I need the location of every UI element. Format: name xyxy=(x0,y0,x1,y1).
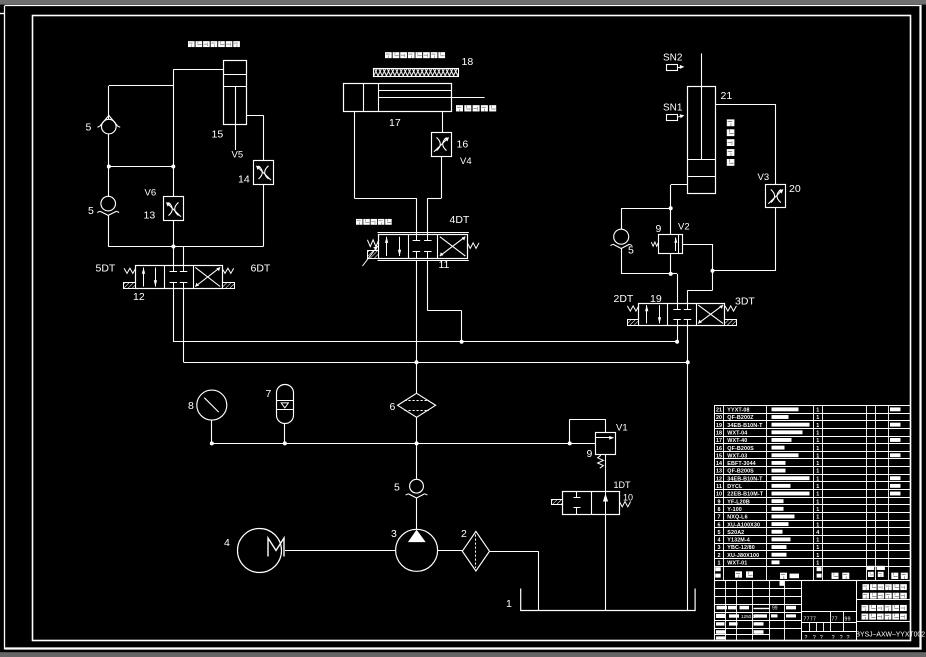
svg-text:1: 1 xyxy=(506,598,512,610)
spring right valve12 xyxy=(222,268,234,273)
pilot valve 9 V2 xyxy=(659,234,683,254)
svg-text:16: 16 xyxy=(457,139,469,151)
wire valve12 top ports xyxy=(174,247,184,266)
parts row 4 Y132M-4 xyxy=(718,537,820,543)
svg-text:YBC-12/80: YBC-12/80 xyxy=(727,545,755,551)
svg-text:?: ? xyxy=(832,635,835,641)
svg-text:3: 3 xyxy=(391,528,397,540)
wire valve12 to bus B xyxy=(183,289,185,363)
svg-text:WXT-04: WXT-04 xyxy=(727,430,747,436)
svg-text:11: 11 xyxy=(716,484,722,490)
spring left valve11 xyxy=(367,240,378,247)
svg-text:4: 4 xyxy=(816,530,819,536)
wire cylinder15 right port to valve14 xyxy=(247,115,264,160)
svg-text:19: 19 xyxy=(650,293,662,305)
svg-text:10: 10 xyxy=(716,492,722,498)
cylinder 17 horizontal xyxy=(344,84,485,112)
svg-text:1: 1 xyxy=(816,522,819,528)
check valve 5 (center) xyxy=(406,479,428,498)
svg-text:QF-B200S: QF-B200S xyxy=(727,469,754,475)
svg-text:SN1: SN1 xyxy=(663,103,683,114)
parts row 6 XU-A100X30 xyxy=(718,522,820,528)
svg-text:14: 14 xyxy=(238,174,250,186)
svg-text:5: 5 xyxy=(628,245,634,257)
cylinder 21 vertical lift xyxy=(688,53,716,193)
solenoid 2DT xyxy=(628,320,639,326)
svg-text:NXQ-L6: NXQ-L6 xyxy=(727,515,747,521)
spring right valve11 xyxy=(467,243,479,249)
svg-text:99: 99 xyxy=(772,606,778,612)
spring left valve19 xyxy=(627,306,638,311)
svg-text:1: 1 xyxy=(816,553,819,559)
solenoid 6DT xyxy=(223,283,235,289)
svg-text:19: 19 xyxy=(716,423,722,429)
parts row 15 WXT-03 xyxy=(716,453,901,459)
wire valve19 to bus A xyxy=(677,325,679,341)
svg-text:SN2: SN2 xyxy=(663,53,683,64)
label gripper cylinder (Chinese) xyxy=(188,41,240,47)
wire cross link xyxy=(109,166,174,168)
svg-text:1: 1 xyxy=(816,476,819,482)
svg-text:12: 12 xyxy=(133,291,145,303)
junction xyxy=(460,340,464,344)
svg-text:4: 4 xyxy=(224,537,230,549)
shaft motor-pump xyxy=(285,550,396,552)
parts row 18 WXT-04 xyxy=(716,430,819,436)
relief valve V1 pilot loop xyxy=(570,419,606,443)
svg-text:13: 13 xyxy=(144,210,156,222)
parts table header row xyxy=(715,566,908,579)
svg-text:V3: V3 xyxy=(758,172,770,183)
svg-text:1: 1 xyxy=(816,430,819,436)
relief valve V1 body 9 xyxy=(595,433,615,455)
spring left valve12 xyxy=(124,268,136,273)
wire filter to tank xyxy=(490,551,539,610)
parts row 9 YF-L20B xyxy=(718,499,820,505)
svg-text:1: 1 xyxy=(816,492,819,498)
directional valve 12 body xyxy=(136,265,223,288)
suction filter 2 xyxy=(462,531,489,571)
svg-text:17: 17 xyxy=(716,438,722,444)
svg-text:8: 8 xyxy=(718,507,721,513)
svg-text:2: 2 xyxy=(718,553,721,559)
svg-text:18: 18 xyxy=(462,56,474,68)
svg-text:?: ? xyxy=(847,635,850,641)
svg-text:7777: 7777 xyxy=(804,616,817,622)
svg-text:V5: V5 xyxy=(232,150,244,161)
pump 3 xyxy=(396,529,438,571)
flow control valve 20 V3 xyxy=(766,185,786,208)
bus line A xyxy=(173,341,677,343)
servo valve 11 body xyxy=(378,233,469,261)
relief valve V1 bus link xyxy=(568,441,572,445)
svg-text:DYCL: DYCL xyxy=(727,484,743,490)
svg-text:1: 1 xyxy=(816,446,819,452)
junction xyxy=(711,269,715,273)
wire accumulator to bus xyxy=(284,424,286,444)
svg-text:?: ? xyxy=(804,635,807,641)
svg-text:22EB-B10M-T: 22EB-B10M-T xyxy=(727,492,763,498)
svg-text:34EB-B10N-T: 34EB-B10N-T xyxy=(727,476,763,482)
svg-text:YF-L20B: YF-L20B xyxy=(727,499,750,505)
svg-text:10: 10 xyxy=(623,493,633,503)
wire branch to check valve 5 right xyxy=(621,208,671,229)
svg-text:YYXT-08: YYXT-08 xyxy=(727,408,749,414)
electric motor 4 xyxy=(238,529,285,573)
wire cyl17 right port to valve16 xyxy=(442,111,444,132)
junction xyxy=(686,360,690,364)
svg-text:34EB-B10N-T: 34EB-B10N-T xyxy=(727,423,763,429)
svg-text:V4: V4 xyxy=(460,156,472,167)
svg-text:99: 99 xyxy=(845,616,851,622)
pressure gauge 8 xyxy=(197,390,227,420)
svg-text:5: 5 xyxy=(88,205,94,217)
svg-text:1: 1 xyxy=(718,561,721,567)
parts row 2 XU-J80X100 xyxy=(718,553,820,559)
wire junction to valve20 line xyxy=(713,270,776,272)
wire return to tank right xyxy=(687,362,689,610)
wire valve13 bottom xyxy=(173,221,175,247)
parts row 13 QF-B200S xyxy=(716,469,819,475)
svg-text:6: 6 xyxy=(390,401,396,413)
title block drawing name (Chinese) xyxy=(862,605,907,620)
svg-text:6DT: 6DT xyxy=(251,263,271,275)
spring below V1 xyxy=(598,455,604,468)
svg-text:1: 1 xyxy=(816,538,819,544)
parts row 12 34EB-B10N-T xyxy=(716,476,901,482)
svg-text:WXT-03: WXT-03 xyxy=(727,453,747,459)
svg-text:QF-B200Z: QF-B200Z xyxy=(727,415,754,421)
junction xyxy=(415,441,419,445)
wire junction to valve19 left port xyxy=(671,274,678,304)
parts row 14 EBFT-3044 xyxy=(716,461,819,467)
wire valve20 bottom xyxy=(775,208,777,271)
svg-text:16: 16 xyxy=(716,446,722,452)
wire cyl17 left port xyxy=(354,111,416,235)
wire cyl21 bottom port xyxy=(671,185,688,235)
flow control valve 13 V6 xyxy=(164,197,184,221)
wire check valve branch top xyxy=(109,86,174,120)
parts row 1 WXT-01 xyxy=(718,560,820,566)
svg-text:20: 20 xyxy=(716,415,722,421)
accumulator 7 xyxy=(277,385,294,424)
title block middle marks xyxy=(804,616,851,641)
svg-text:?: ? xyxy=(840,635,843,641)
junction xyxy=(171,245,175,249)
wire check valve to pump xyxy=(416,498,418,530)
svg-text:Y-100: Y-100 xyxy=(727,507,742,513)
svg-text:5: 5 xyxy=(86,122,92,134)
junction xyxy=(210,441,214,445)
svg-text:9: 9 xyxy=(587,448,593,460)
svg-text:2DT: 2DT xyxy=(614,293,634,305)
sensor SN1 symbol xyxy=(667,114,685,120)
svg-text:13: 13 xyxy=(716,469,722,475)
svg-text:4DT: 4DT xyxy=(450,214,470,226)
flow control valve 16 V4 xyxy=(432,133,452,157)
parts row 3 YBC-12/80 xyxy=(718,545,820,551)
svg-text:1: 1 xyxy=(816,438,819,444)
wire valve10 to tank xyxy=(605,515,607,610)
wire valve9 bottom xyxy=(670,254,672,274)
svg-text:14: 14 xyxy=(716,461,722,467)
svg-text:1: 1 xyxy=(816,423,819,429)
wire valve19 to bus B and tank xyxy=(687,325,689,362)
solenoid 3DT xyxy=(725,320,737,326)
title block school name (Chinese) xyxy=(863,584,907,599)
wire valve11 right port to bus A xyxy=(428,260,462,342)
wire bus to check valve xyxy=(416,443,418,479)
svg-text:1: 1 xyxy=(816,469,819,475)
wire junction to valve19 right port xyxy=(688,271,713,303)
parts row 7 NXQ-L6 xyxy=(718,515,820,521)
wire valve11 left port to bus B xyxy=(416,260,418,362)
parts row 8 Y-100 xyxy=(718,507,820,513)
svg-text:1: 1 xyxy=(816,408,819,414)
parts row 16 QF-B200S xyxy=(716,446,819,452)
bus line B xyxy=(184,362,688,364)
parts list table xyxy=(715,405,911,580)
wire valve12 to bus A xyxy=(173,289,175,342)
junction xyxy=(669,272,673,276)
svg-text:1: 1 xyxy=(816,461,819,467)
wire cyl21 top port to valve20 xyxy=(715,105,776,185)
junction xyxy=(283,441,287,445)
svg-text:8: 8 xyxy=(188,400,194,412)
svg-text:21: 21 xyxy=(721,90,733,102)
sensor bar 18 crosshatched xyxy=(374,69,459,77)
junction xyxy=(669,206,673,210)
svg-text:WXT-40: WXT-40 xyxy=(727,438,747,444)
directional valve 19 body xyxy=(639,303,725,325)
wire gauge to bus xyxy=(211,420,213,443)
svg-text:V6: V6 xyxy=(145,188,157,199)
svg-text:9: 9 xyxy=(656,223,662,235)
wire check valve to junction xyxy=(621,248,671,274)
wire pump to filter xyxy=(438,550,463,552)
wire V1 to valve10 xyxy=(605,455,607,491)
wire valve14 bottom xyxy=(263,184,265,246)
wire valve9 right loop xyxy=(683,244,713,271)
solenoid 1DT hatched xyxy=(552,500,563,505)
title block signature marks xyxy=(716,581,796,640)
svg-text:2: 2 xyxy=(461,528,467,540)
svg-text:18: 18 xyxy=(716,430,722,436)
svg-text:1: 1 xyxy=(816,545,819,551)
svg-text:5: 5 xyxy=(718,530,721,536)
svg-text:?: ? xyxy=(820,635,823,641)
main riser line xyxy=(416,362,418,443)
spring left valve9 xyxy=(651,242,658,246)
check valve 5 (second, left) xyxy=(97,196,119,215)
svg-text:V2: V2 xyxy=(678,222,690,233)
svg-text:5DT: 5DT xyxy=(96,263,116,275)
check valve 5 (top left) xyxy=(97,115,120,133)
check valve 5 (right) xyxy=(610,229,632,248)
parts row 5 S20A2 xyxy=(718,530,820,536)
junction xyxy=(107,165,111,169)
parts row 21 YYXT-08 xyxy=(716,407,901,413)
parts row 20 QF-B200Z xyxy=(716,415,819,421)
svg-text:1: 1 xyxy=(816,453,819,459)
wire valve16 to servo valve xyxy=(428,156,442,235)
unloading valve 10 body xyxy=(563,491,620,515)
junction xyxy=(675,340,679,344)
label horizontal cylinder (Chinese) xyxy=(456,105,496,111)
label vertical lift cylinder (Chinese vertical) xyxy=(727,119,735,165)
svg-text:5: 5 xyxy=(394,482,400,494)
svg-text:1DT: 1DT xyxy=(614,480,632,490)
svg-text:?: ? xyxy=(813,635,816,641)
svg-text:7: 7 xyxy=(718,515,721,521)
svg-text:77: 77 xyxy=(832,616,838,622)
spring right valve10 xyxy=(619,502,630,507)
svg-text:4: 4 xyxy=(718,538,721,544)
parts row 17 WXT-40 xyxy=(716,438,901,444)
svg-text:1250.1: 1250.1 xyxy=(741,614,755,619)
svg-text:7: 7 xyxy=(266,388,272,400)
parts row 11 DYCL xyxy=(716,484,900,490)
pressure bus line xyxy=(212,443,596,445)
svg-text:9: 9 xyxy=(718,499,721,505)
svg-text:1: 1 xyxy=(816,507,819,513)
label displacement sensor (Chinese) xyxy=(385,52,445,58)
parts row 10 22EB-B10M-T xyxy=(716,492,901,498)
sensor SN2 symbol xyxy=(667,65,685,71)
svg-text:XU-A100X30: XU-A100X30 xyxy=(727,522,760,528)
svg-text:1: 1 xyxy=(816,499,819,505)
svg-text:EBFT-3044: EBFT-3044 xyxy=(727,461,755,467)
proportional solenoid valve11 xyxy=(363,246,379,266)
svg-text:1: 1 xyxy=(816,484,819,490)
svg-text:1: 1 xyxy=(816,415,819,421)
svg-text:11: 11 xyxy=(439,259,450,271)
svg-text:WXT-01: WXT-01 xyxy=(727,561,747,567)
wire to check valve 5 lower xyxy=(108,167,110,197)
solenoid 5DT xyxy=(124,283,136,289)
svg-text:V1: V1 xyxy=(616,423,628,434)
svg-text:1: 1 xyxy=(816,561,819,567)
svg-text:3: 3 xyxy=(718,545,721,551)
parts row 19 34EB-B10N-T xyxy=(716,423,901,429)
svg-text:6: 6 xyxy=(718,522,721,528)
gray strip bottom xyxy=(0,652,926,657)
wire below check valve xyxy=(108,134,110,167)
svg-text:Y132M-4: Y132M-4 xyxy=(727,538,750,544)
svg-text:XU-J80X100: XU-J80X100 xyxy=(727,553,759,559)
svg-text:15: 15 xyxy=(716,453,722,459)
svg-text:12: 12 xyxy=(716,476,722,482)
svg-text:15: 15 xyxy=(212,129,224,141)
cylinder 15 (gripper extend) xyxy=(224,61,247,151)
svg-text:1: 1 xyxy=(816,515,819,521)
flow control valve 14 V5 xyxy=(254,161,274,185)
svg-text:S20A2: S20A2 xyxy=(727,530,744,536)
spring right valve19 xyxy=(725,306,736,311)
title block frame xyxy=(714,580,910,641)
svg-text:QF-B200S: QF-B200S xyxy=(727,446,754,452)
svg-text:3DT: 3DT xyxy=(735,296,755,308)
label servo valve (Chinese) xyxy=(356,219,392,225)
junction xyxy=(415,360,419,364)
wire check valve to manifold xyxy=(108,215,263,247)
wire cylinder15 left port xyxy=(173,69,223,197)
tank 1 xyxy=(521,589,695,611)
svg-text:17: 17 xyxy=(389,117,401,129)
gray strip top xyxy=(0,0,926,5)
svg-text:BYSJ–AXW–YYXT002: BYSJ–AXW–YYXT002 xyxy=(856,629,926,638)
junction xyxy=(171,165,175,169)
svg-text:21: 21 xyxy=(716,408,722,414)
filter 6 xyxy=(398,393,436,417)
svg-text:20: 20 xyxy=(789,183,801,195)
